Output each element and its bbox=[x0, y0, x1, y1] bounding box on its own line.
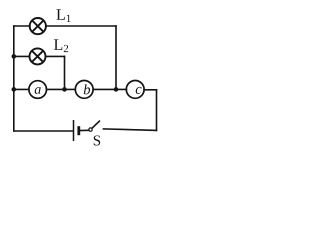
wire meter c to right corner bbox=[144, 89, 157, 91]
node junction dot on left rail at middle row bbox=[12, 87, 17, 92]
svg-text:a: a bbox=[34, 83, 41, 98]
wire middle row: rail to meter a bbox=[14, 88, 29, 90]
wire bottom left segment bbox=[14, 130, 73, 132]
node junction dot on left rail at L2 branch bbox=[12, 54, 17, 59]
ammeter c bbox=[126, 81, 144, 99]
wire meter b to meter c bbox=[93, 88, 126, 90]
ammeter b bbox=[75, 81, 93, 99]
lamp L1 bbox=[30, 18, 46, 34]
switch S bbox=[89, 121, 100, 132]
node junction dot between a and b bbox=[62, 87, 67, 92]
wire L1 drop bbox=[115, 26, 117, 89]
svg-text:c: c bbox=[135, 82, 142, 98]
wire battery to switch bbox=[79, 129, 89, 131]
svg-text:S: S bbox=[93, 133, 101, 149]
lamp L2 bbox=[30, 48, 46, 64]
wire right rail bbox=[156, 90, 158, 131]
battery cell bbox=[74, 120, 79, 141]
wire top branch right segment bbox=[46, 25, 116, 27]
wire L2 drop bbox=[64, 56, 66, 89]
wire top branch left segment bbox=[14, 25, 30, 27]
ammeter a bbox=[29, 81, 47, 99]
wire L2 branch right segment bbox=[46, 55, 65, 57]
svg-text:b: b bbox=[83, 82, 90, 98]
wire L2 branch left segment bbox=[14, 55, 30, 57]
wire meter a to meter b bbox=[47, 88, 76, 90]
node junction dot between b and c bbox=[114, 87, 119, 92]
wire switch contact to right rail bbox=[103, 129, 156, 131]
wire left rail bbox=[13, 26, 15, 131]
